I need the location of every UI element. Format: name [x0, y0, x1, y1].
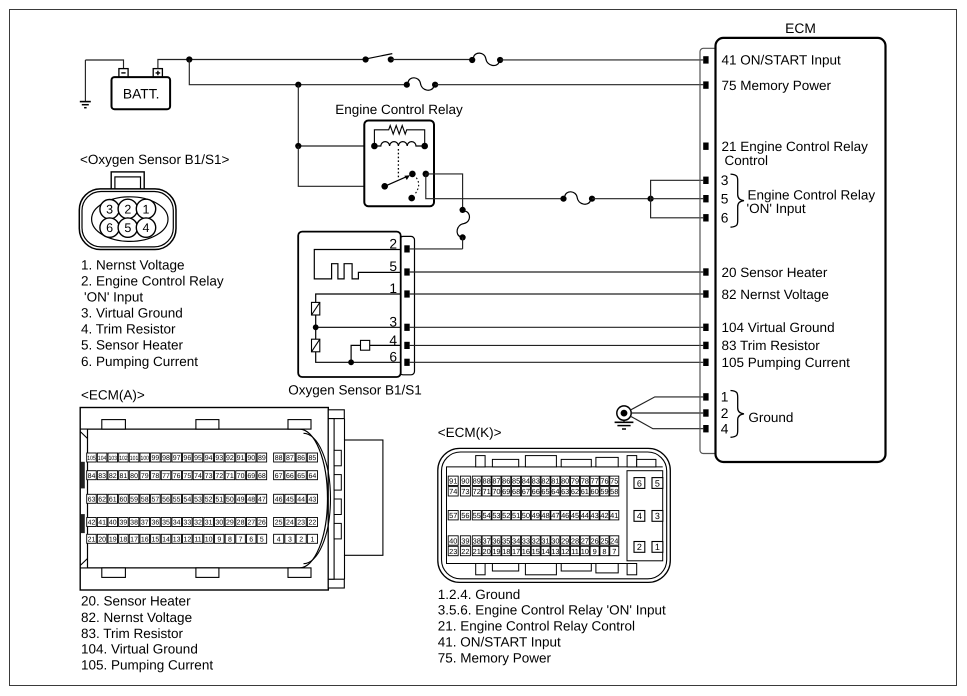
svg-text:93: 93: [215, 455, 223, 462]
ECM label 20: [722, 265, 828, 280]
svg-text:2: 2: [721, 406, 729, 421]
ECM(K) pin row 57-41: [448, 511, 619, 521]
junction row-1 / row-2 tap: [186, 56, 192, 62]
ECM(K) pin list: [438, 587, 666, 666]
oxygen sensor connector pin 6: [100, 218, 119, 237]
svg-text:5: 5: [124, 221, 131, 235]
ECM(K) pin 3: [652, 511, 663, 522]
connector strip (oxygen sensor box pins): [400, 236, 415, 374]
svg-text:99: 99: [151, 455, 159, 462]
oxygen sensor box pin 2: [389, 236, 409, 252]
svg-text:37: 37: [141, 520, 149, 527]
ground (chassis, ECM grounds): [615, 406, 634, 429]
svg-text:62: 62: [571, 487, 579, 496]
ECM pin 5 terminal: [703, 195, 708, 202]
svg-text:23: 23: [449, 547, 457, 556]
oxygen sensor box pin 6: [389, 349, 409, 366]
svg-text:72: 72: [215, 473, 223, 480]
svg-text:51: 51: [512, 511, 520, 520]
ECM pin 2 terminal: [703, 409, 708, 416]
svg-text:94: 94: [205, 455, 213, 462]
svg-text:50: 50: [522, 511, 530, 520]
svg-text:1: 1: [721, 390, 729, 405]
svg-text:ECM: ECM: [785, 21, 816, 36]
wire branch to ECM pin 3: [651, 180, 704, 198]
ECM pin 104 terminal: [703, 324, 708, 331]
junction row-2 / relay coil tap: [295, 82, 301, 88]
svg-text:6: 6: [249, 536, 253, 543]
wire row-1 feed to ignition switch: [189, 59, 365, 61]
svg-text:5: 5: [655, 478, 660, 488]
svg-text:42: 42: [88, 520, 96, 527]
label Engine Control Relay ON Input: [747, 188, 876, 217]
wire resistor to virtual-ground node: [315, 315, 317, 327]
wire relay output to pins 3/5/6 net: [426, 174, 564, 199]
svg-text:28: 28: [237, 520, 245, 527]
svg-text:47: 47: [551, 511, 559, 520]
svg-text:4: 4: [143, 221, 150, 235]
ECM pin number 4: [721, 422, 729, 437]
svg-text:42: 42: [600, 511, 608, 520]
svg-text:40: 40: [449, 536, 457, 545]
wire lower resistor to pumping node: [316, 352, 401, 363]
svg-text:2: 2: [637, 542, 642, 552]
svg-text:103: 103: [109, 455, 118, 462]
svg-text:84: 84: [88, 473, 96, 480]
resistor (relay parallel resistor): [374, 126, 424, 147]
svg-text:4: 4: [721, 422, 729, 437]
svg-text:60: 60: [591, 487, 599, 496]
ECM label 82: [722, 287, 829, 302]
oxygen sensor pin 1 internal wire: [316, 294, 401, 302]
svg-text:56: 56: [461, 511, 469, 520]
svg-text:86: 86: [502, 477, 510, 486]
wire fuse F3 to sensor pin 2 (drop): [462, 237, 464, 249]
svg-text:19: 19: [109, 536, 117, 543]
svg-text:4: 4: [389, 333, 397, 348]
ECM(K) pin row 40-24: [448, 536, 619, 546]
svg-text:76: 76: [600, 477, 608, 486]
svg-text:78: 78: [581, 477, 589, 486]
resistor (sensor cell lower): [312, 327, 320, 352]
svg-text:24: 24: [610, 536, 618, 545]
svg-text:20. Sensor Heater: 20. Sensor Heater: [81, 594, 191, 609]
ECM pin number 1: [721, 390, 729, 405]
svg-text:98: 98: [162, 455, 170, 462]
svg-text:26: 26: [258, 520, 266, 527]
wire battery positive to row-1 feed: [158, 60, 189, 69]
svg-text:Oxygen Sensor B1/S1: Oxygen Sensor B1/S1: [288, 383, 422, 398]
svg-text:38: 38: [130, 520, 138, 527]
brace pins 3/5/6: [731, 174, 745, 227]
svg-text:33: 33: [183, 520, 191, 527]
svg-text:89: 89: [258, 455, 266, 462]
ECM pin number 6: [721, 211, 729, 226]
svg-text:33: 33: [522, 536, 530, 545]
svg-text:85: 85: [309, 455, 317, 462]
inductor relay coil: [371, 142, 428, 150]
ECM(K) pin 5: [652, 478, 663, 489]
svg-text:Control: Control: [725, 153, 769, 168]
svg-text:77: 77: [162, 473, 170, 480]
svg-text:35: 35: [162, 520, 170, 527]
svg-text:57: 57: [449, 511, 457, 520]
junction pumping node (pin 6): [348, 359, 354, 365]
oxygen sensor box pin 4: [389, 333, 409, 349]
svg-text:30: 30: [215, 520, 223, 527]
svg-text:11: 11: [571, 547, 579, 556]
svg-text:90: 90: [247, 455, 255, 462]
svg-text:15: 15: [532, 547, 540, 556]
svg-text:31: 31: [541, 536, 549, 545]
ECM(K) pin 4: [634, 511, 645, 522]
svg-text:18: 18: [502, 547, 510, 556]
ECM(K) pin 2: [634, 542, 645, 553]
svg-text:37: 37: [483, 536, 491, 545]
svg-text:104. Virtual Ground: 104. Virtual Ground: [81, 641, 198, 656]
svg-text:20: 20: [483, 547, 491, 556]
svg-text:35: 35: [502, 536, 510, 545]
oxygen sensor box pin 1: [389, 281, 409, 297]
svg-text:54: 54: [183, 496, 191, 503]
ECM(A) pin row 42-22: [87, 518, 318, 527]
svg-text:10: 10: [581, 547, 589, 556]
svg-text:44: 44: [297, 496, 305, 503]
svg-text:87: 87: [286, 455, 294, 462]
svg-text:78: 78: [151, 473, 159, 480]
svg-text:16: 16: [141, 536, 149, 543]
wire sensor heater (pin5 to ECM 20): [410, 271, 704, 273]
svg-text:32: 32: [194, 520, 202, 527]
svg-text:4. Trim Resistor: 4. Trim Resistor: [81, 321, 176, 336]
ECM label 104: [722, 320, 835, 335]
svg-text:81: 81: [120, 473, 128, 480]
svg-text:66: 66: [286, 473, 294, 480]
ECM label 75: [722, 78, 832, 93]
oxygen sensor connector pin 2: [118, 199, 137, 218]
svg-text:24: 24: [286, 520, 294, 527]
svg-text:54: 54: [483, 511, 491, 520]
svg-text:83: 83: [532, 477, 540, 486]
svg-text:49: 49: [237, 496, 245, 503]
svg-text:12: 12: [561, 547, 569, 556]
svg-text:6: 6: [637, 478, 642, 488]
svg-text:74: 74: [449, 487, 457, 496]
svg-text:49: 49: [532, 511, 540, 520]
svg-text:70: 70: [492, 487, 500, 496]
wire trim resistor (pin4 to ECM 83): [410, 344, 704, 346]
svg-text:104 Virtual Ground: 104 Virtual Ground: [722, 320, 835, 335]
wire battery negative to ground: [85, 60, 123, 69]
svg-text:3: 3: [106, 203, 113, 217]
ECM label 21 line 2: [725, 153, 769, 168]
svg-text:104: 104: [98, 455, 107, 462]
svg-text:68: 68: [512, 487, 520, 496]
relay switch lever and pivot: [381, 175, 409, 189]
ECM(A) pin row 63-43: [87, 494, 318, 503]
svg-text:82: 82: [541, 477, 549, 486]
svg-text:52: 52: [502, 511, 510, 520]
svg-text:45: 45: [571, 511, 579, 520]
svg-text:5. Sensor Heater: 5. Sensor Heater: [81, 338, 184, 353]
wire relay switch common feed: [298, 146, 384, 186]
oxygen sensor box pin 5: [389, 259, 409, 276]
ECM pin 105 terminal: [703, 359, 708, 366]
oxygen sensor connector pin 4: [136, 218, 155, 237]
svg-text:82 Nernst Voltage: 82 Nernst Voltage: [722, 287, 829, 302]
svg-text:38: 38: [473, 536, 481, 545]
ECM pin number 3: [721, 173, 729, 188]
svg-text:82. Nernst Voltage: 82. Nernst Voltage: [81, 610, 192, 625]
ECM label 41: [722, 53, 842, 68]
svg-text:28: 28: [571, 536, 579, 545]
svg-text:36: 36: [492, 536, 500, 545]
ECM(A) pin list: [81, 594, 213, 673]
svg-text:88: 88: [275, 455, 283, 462]
oxygen sensor connector pin 3: [100, 200, 119, 219]
svg-text:41. ON/START Input: 41. ON/START Input: [438, 635, 561, 650]
connector strip (ECM pins): [700, 48, 716, 453]
svg-text:77: 77: [591, 477, 599, 486]
svg-text:27: 27: [247, 520, 255, 527]
relay lever travel (dashed arc): [415, 178, 419, 195]
svg-text:82: 82: [109, 473, 117, 480]
battery BATT: [112, 69, 171, 110]
ECM(A) pin row 105-85: [87, 453, 318, 462]
svg-text:13: 13: [551, 547, 559, 556]
ECM pin 75 terminal: [703, 81, 708, 88]
svg-text:<Oxygen Sensor B1/S1>: <Oxygen Sensor B1/S1>: [80, 152, 229, 167]
svg-text:97: 97: [173, 455, 181, 462]
svg-text:17: 17: [512, 547, 520, 556]
oxygen sensor connector pin 5: [118, 218, 137, 237]
svg-text:90: 90: [461, 477, 469, 486]
svg-text:3: 3: [655, 511, 660, 521]
svg-text:43: 43: [591, 511, 599, 520]
oxygen sensor connector title: [80, 152, 229, 167]
ECM(A) pin row 84-64: [87, 471, 318, 480]
svg-text:101: 101: [130, 455, 139, 462]
svg-text:23: 23: [297, 520, 305, 527]
svg-text:45: 45: [286, 496, 294, 503]
svg-text:13: 13: [173, 536, 181, 543]
svg-text:9: 9: [593, 547, 597, 556]
wire fuse F2 to ECM pin 75: [435, 84, 703, 86]
ECM pin number 5: [721, 192, 729, 207]
ECM(A) title: [81, 388, 145, 403]
ECM pin number 2: [721, 406, 729, 421]
svg-text:36: 36: [151, 520, 159, 527]
ECM(K) housing notches: [446, 456, 663, 575]
relay contact C (rest position): [408, 195, 415, 202]
svg-text:55: 55: [173, 496, 181, 503]
svg-text:89: 89: [473, 477, 481, 486]
junction virtual ground node (pin 3): [313, 324, 401, 330]
svg-text:58: 58: [610, 487, 618, 496]
wire row-2 feed (memory power): [189, 60, 406, 85]
svg-text:6. Pumping Current: 6. Pumping Current: [81, 354, 198, 369]
svg-text:69: 69: [247, 473, 255, 480]
svg-text:63: 63: [88, 496, 96, 503]
fuse F2 (row-2): [404, 78, 439, 90]
fuse F4 (relay ON input line): [560, 192, 595, 204]
svg-text:25: 25: [600, 536, 608, 545]
wire switch to fuse F1: [391, 59, 472, 61]
svg-text:81: 81: [551, 477, 559, 486]
svg-text:105: 105: [87, 455, 96, 462]
svg-text:10: 10: [205, 536, 213, 543]
svg-text:34: 34: [512, 536, 520, 545]
svg-text:14: 14: [162, 536, 170, 543]
svg-text:6: 6: [721, 211, 729, 226]
svg-text:'ON' Input: 'ON' Input: [84, 289, 143, 304]
ECM pin 21 terminal: [703, 143, 708, 150]
wire virtual ground (pin3 to ECM 104): [410, 326, 704, 328]
svg-text:79: 79: [571, 477, 579, 486]
svg-text:41 ON/START Input: 41 ON/START Input: [722, 53, 842, 68]
svg-text:59: 59: [600, 487, 608, 496]
svg-text:15: 15: [151, 536, 159, 543]
svg-text:22: 22: [309, 520, 317, 527]
svg-text:85: 85: [512, 477, 520, 486]
svg-text:59: 59: [130, 496, 138, 503]
svg-text:62: 62: [98, 496, 106, 503]
svg-text:3: 3: [721, 173, 729, 188]
svg-text:21: 21: [473, 547, 481, 556]
svg-text:3.5.6. Engine Control Relay 'O: 3.5.6. Engine Control Relay 'ON' Input: [438, 603, 666, 618]
ECM label 105: [722, 355, 851, 370]
svg-text:73: 73: [205, 473, 213, 480]
svg-text:25: 25: [275, 520, 283, 527]
svg-text:105. Pumping Current: 105. Pumping Current: [81, 658, 213, 673]
svg-text:53: 53: [492, 511, 500, 520]
wire nernst voltage (pin1 to ECM 82): [410, 293, 704, 295]
wire branch to ECM pin 5: [651, 198, 704, 200]
svg-text:14: 14: [541, 547, 549, 556]
svg-text:73: 73: [461, 487, 469, 496]
ECM pin 1 terminal: [703, 393, 708, 400]
resistor (sensor cell upper): [312, 302, 320, 315]
svg-text:105 Pumping Current: 105 Pumping Current: [722, 355, 851, 370]
svg-text:1: 1: [389, 281, 397, 296]
svg-text:8: 8: [228, 536, 232, 543]
wire fuse F4 to junction node: [592, 198, 651, 200]
svg-text:58: 58: [141, 496, 149, 503]
svg-text:46: 46: [275, 496, 283, 503]
svg-text:4: 4: [637, 511, 642, 521]
svg-text:84: 84: [522, 477, 530, 486]
svg-text:9: 9: [217, 536, 221, 543]
svg-text:6: 6: [106, 221, 113, 235]
svg-text:53: 53: [194, 496, 202, 503]
svg-text:29: 29: [226, 520, 234, 527]
svg-text:102: 102: [119, 455, 128, 462]
wire fuse F1 to ECM pin 41: [500, 59, 703, 61]
ECM pin 6 terminal: [703, 214, 708, 221]
svg-text:40: 40: [109, 520, 117, 527]
ECM(K) pin row 23-7: [448, 546, 619, 556]
svg-text:<ECM(K)>: <ECM(K)>: [438, 425, 502, 440]
svg-text:80: 80: [561, 477, 569, 486]
fuse F3 (sensor heater relay output, vertical): [457, 207, 469, 241]
ECM(A) housing notches: [80, 420, 311, 578]
svg-text:29: 29: [561, 536, 569, 545]
svg-text:91: 91: [449, 477, 457, 486]
svg-text:67: 67: [522, 487, 530, 496]
svg-text:64: 64: [309, 473, 317, 480]
svg-text:75: 75: [610, 477, 618, 486]
svg-text:5: 5: [389, 259, 397, 274]
svg-text:60: 60: [120, 496, 128, 503]
ECM(A) connector housing: [80, 408, 383, 591]
oxygen sensor connector pin 1: [136, 199, 155, 218]
svg-text:75: 75: [183, 473, 191, 480]
wire branch to ECM pin 6: [651, 199, 704, 218]
relay contact B (switch output): [423, 171, 430, 178]
svg-text:2: 2: [389, 236, 397, 251]
svg-text:20: 20: [98, 536, 106, 543]
svg-text:75. Memory Power: 75. Memory Power: [438, 650, 552, 665]
svg-text:57: 57: [151, 496, 159, 503]
ECM label 21: [722, 139, 869, 154]
brace pins 1/2/4: [731, 391, 745, 438]
svg-text:2: 2: [299, 536, 303, 543]
wire relay output to vertical fuse: [426, 174, 463, 210]
wire ground to ECM pin 4: [631, 416, 704, 429]
switch (ignition) on row-1: [363, 54, 394, 63]
svg-text:39: 39: [120, 520, 128, 527]
svg-text:30: 30: [551, 536, 559, 545]
ECM title: [785, 21, 816, 36]
svg-text:69: 69: [502, 487, 510, 496]
svg-text:6: 6: [389, 349, 397, 364]
svg-text:83. Trim Resistor: 83. Trim Resistor: [81, 626, 184, 641]
svg-text:64: 64: [551, 487, 559, 496]
svg-text:79: 79: [141, 473, 149, 480]
svg-text:3: 3: [389, 315, 397, 330]
svg-text:1. Nernst Voltage: 1. Nernst Voltage: [81, 257, 185, 272]
svg-text:5: 5: [260, 536, 264, 543]
wire relay ON input (sensor pin 2): [410, 248, 463, 250]
svg-text:48: 48: [247, 496, 255, 503]
svg-text:71: 71: [226, 473, 234, 480]
svg-text:83: 83: [98, 473, 106, 480]
oxygen sensor box pin 3: [389, 315, 409, 331]
svg-text:65: 65: [541, 487, 549, 496]
relay Engine Control Relay box: [364, 121, 434, 207]
svg-text:32: 32: [532, 536, 540, 545]
svg-text:17: 17: [130, 536, 138, 543]
svg-text:72: 72: [473, 487, 481, 496]
svg-text:87: 87: [492, 477, 500, 486]
relay plunger (dotted link): [397, 149, 399, 178]
svg-text:22: 22: [461, 547, 469, 556]
ground (battery negative): [80, 60, 91, 108]
svg-text:1: 1: [310, 536, 314, 543]
fuse F1 (row-1): [469, 53, 503, 65]
svg-text:2: 2: [124, 202, 131, 216]
svg-text:7: 7: [612, 547, 616, 556]
oxygen sensor internal heater (pins 2-5): [314, 250, 400, 279]
ECM pin 83 terminal: [703, 342, 708, 349]
svg-text:11: 11: [194, 536, 201, 543]
ECM pin 4 terminal: [703, 425, 708, 432]
svg-text:1.2.4. Ground: 1.2.4. Ground: [438, 587, 521, 602]
svg-text:100: 100: [141, 455, 150, 462]
svg-text:92: 92: [226, 455, 234, 462]
svg-text:BATT.: BATT.: [123, 86, 160, 101]
svg-text:91: 91: [237, 455, 245, 462]
